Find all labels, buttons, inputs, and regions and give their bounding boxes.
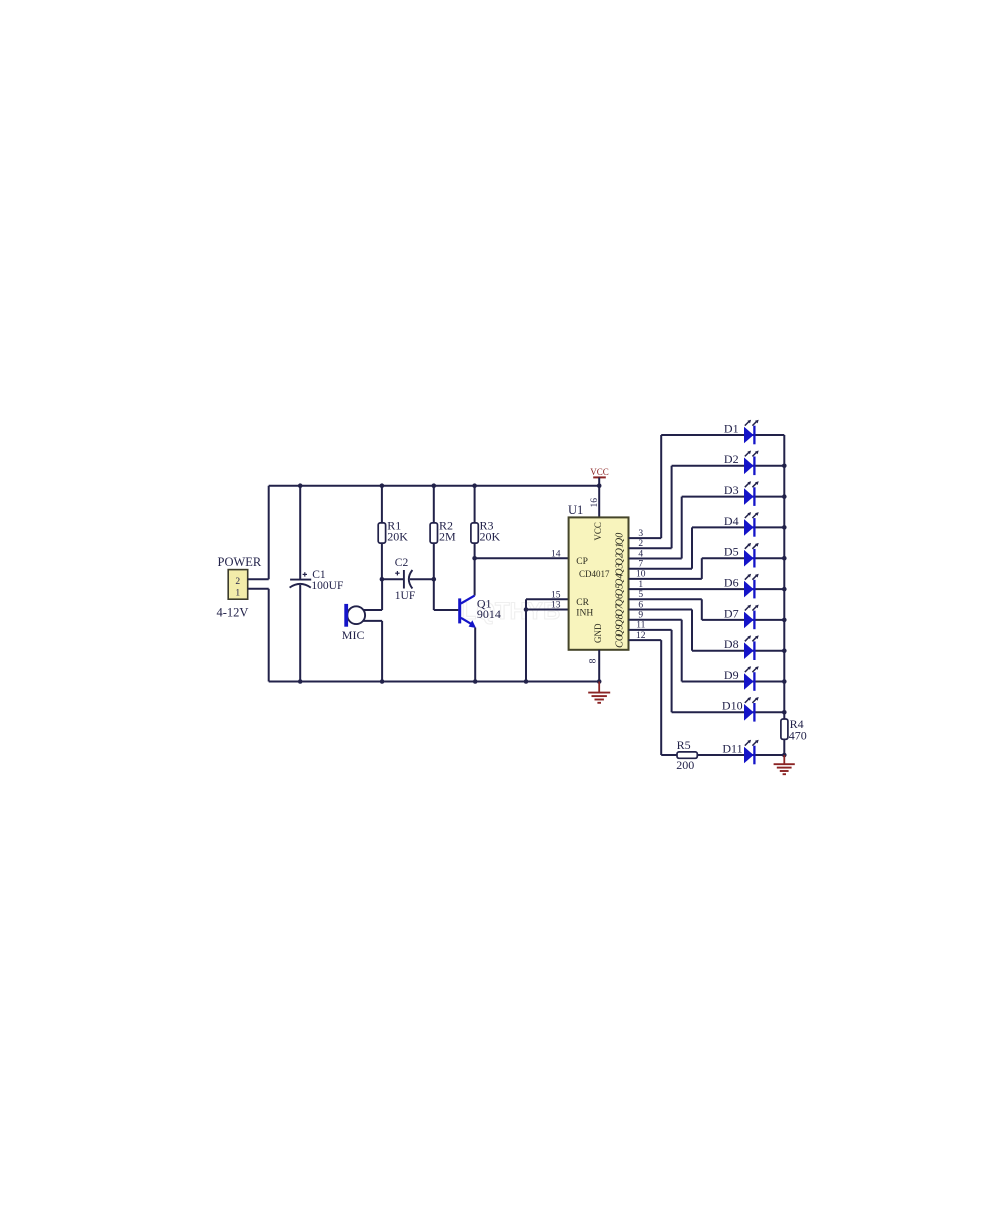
node R3-CP-collector junction	[472, 556, 477, 561]
ic U1 label INH	[576, 608, 593, 618]
connector J1 POWER label	[218, 555, 262, 569]
wire top positive rail	[269, 485, 600, 487]
wire D7 row	[702, 619, 785, 621]
svg-text:R5: R5	[677, 738, 691, 752]
resistor R5	[677, 752, 697, 758]
svg-text:16: 16	[590, 498, 600, 508]
svg-text:C1: C1	[312, 569, 326, 581]
wire D8 row	[692, 650, 784, 652]
node C1 top junction	[298, 483, 303, 488]
led D3	[744, 481, 759, 506]
label D8	[724, 637, 739, 651]
node C2-R2 junction	[432, 577, 437, 582]
led D11	[744, 740, 759, 765]
wire CR stub	[526, 598, 569, 600]
connector J1 POWER box	[228, 570, 248, 600]
svg-text:D8: D8	[724, 637, 739, 651]
svg-text:D1: D1	[724, 421, 739, 435]
pin number 1	[638, 580, 643, 590]
label D2	[724, 452, 739, 466]
wire D1 row	[661, 434, 784, 436]
pin number 2	[638, 539, 643, 549]
led D8	[744, 635, 759, 660]
ic U1 label Q7	[614, 603, 625, 616]
node VCC junction	[597, 483, 602, 488]
label 100UF	[311, 580, 343, 592]
label MIC	[342, 628, 365, 642]
node emitter ground junction	[473, 679, 478, 684]
transistor Q1	[458, 596, 476, 628]
ic U1 label Q8	[614, 614, 625, 626]
svg-text:D3: D3	[724, 483, 739, 497]
wire D5 riser	[701, 558, 703, 579]
svg-text:CR: CR	[576, 598, 589, 608]
svg-text:12: 12	[636, 631, 646, 641]
wire pin 16 lead	[598, 486, 600, 518]
svg-text:100UF: 100UF	[311, 580, 343, 592]
ic U1 label Q2	[614, 553, 625, 565]
led D1	[744, 420, 759, 445]
pin number 5	[638, 590, 643, 600]
power VCC symbol	[590, 467, 609, 486]
svg-text:D7: D7	[724, 606, 739, 620]
svg-text:CO: CO	[614, 634, 625, 648]
wire R1 bottom lead	[381, 543, 383, 579]
wire D3 row	[682, 496, 785, 498]
pin number 11	[636, 621, 645, 631]
svg-text:470: 470	[789, 728, 807, 742]
node rail junction	[782, 710, 787, 715]
wire POWER pin 1 stub	[248, 588, 269, 590]
pin number 6	[638, 600, 643, 610]
led D5	[744, 543, 759, 568]
wire C2 left lead	[382, 578, 404, 580]
wire POWER pin 2 stub	[248, 578, 269, 580]
wire D6 row	[629, 588, 785, 590]
pin number 4	[638, 549, 643, 559]
svg-text:10: 10	[636, 570, 646, 580]
wire D5 row	[702, 557, 785, 559]
wire collector vertical	[474, 558, 476, 595]
ic U1 label GND	[593, 623, 603, 643]
wire pin 9 stub	[629, 619, 682, 621]
ic U1 label CD4017	[579, 569, 610, 579]
ic U1 label Q5	[614, 584, 625, 596]
ic U1 label CR	[576, 598, 589, 608]
label D3	[724, 483, 739, 497]
resistor R2	[430, 523, 437, 543]
svg-text:GND: GND	[593, 623, 603, 643]
microphone MIC	[344, 604, 365, 627]
capacitor C1	[290, 572, 312, 587]
pin number 16	[590, 498, 600, 508]
svg-text:13: 13	[551, 601, 561, 611]
svg-text:4: 4	[638, 549, 643, 559]
wire D2 row	[672, 465, 785, 467]
pin number 3	[638, 529, 643, 539]
node rail junction	[782, 587, 787, 592]
svg-text:20K: 20K	[480, 529, 501, 543]
led D2	[744, 451, 759, 476]
node rail junction	[782, 648, 787, 653]
label R1	[387, 519, 401, 533]
label 470	[789, 728, 807, 742]
wire pin 5 stub	[629, 598, 702, 600]
svg-text:15: 15	[551, 590, 561, 600]
svg-text:MIC: MIC	[342, 628, 365, 642]
label R4	[790, 717, 804, 731]
svg-text:VCC: VCC	[590, 467, 609, 477]
svg-text:D9: D9	[724, 668, 739, 682]
svg-text:5: 5	[638, 590, 643, 600]
ic U1 label Q4	[614, 574, 625, 586]
svg-text:D10: D10	[722, 699, 743, 713]
label 20K R1	[387, 529, 408, 543]
wire bottom ground rail	[269, 681, 600, 683]
ground IC gnd symbol	[588, 682, 610, 703]
ground right gnd symbol	[774, 755, 795, 774]
wire INH stub	[526, 609, 569, 611]
wire D9 riser	[681, 620, 683, 682]
wire pin 8 lead	[598, 650, 600, 682]
pin number 7	[638, 560, 643, 570]
wire pin 12 stub	[629, 639, 662, 641]
node R1-C2-MIC junction	[380, 577, 385, 582]
label D6	[724, 576, 739, 590]
wire D8 riser	[691, 610, 693, 651]
ic U1 label Q6	[614, 594, 625, 606]
label 2M	[439, 529, 456, 543]
pin number 12	[636, 631, 646, 641]
capacitor C2	[395, 570, 412, 589]
label 1UF	[395, 590, 415, 602]
node IC ground junction	[597, 679, 602, 684]
svg-text:200: 200	[676, 758, 694, 772]
svg-text:11: 11	[636, 621, 645, 631]
wire MIC lower vertical	[381, 621, 383, 682]
led D10	[744, 697, 759, 722]
ic U1 label Q0	[614, 533, 625, 545]
svg-text:1: 1	[235, 588, 240, 598]
node D11 rail junction	[782, 753, 787, 758]
label D4	[724, 514, 739, 528]
svg-text:3: 3	[638, 529, 643, 539]
wire D2 riser	[671, 466, 673, 549]
label U1	[568, 503, 583, 517]
watermark	[462, 598, 561, 625]
svg-text:9: 9	[638, 611, 643, 621]
pin number 13	[551, 601, 561, 611]
resistor R4	[781, 719, 788, 739]
svg-text:VCC: VCC	[593, 522, 603, 541]
wire R3 bottom lead	[474, 543, 476, 558]
wire emitter vertical	[474, 628, 476, 682]
label D11	[722, 741, 742, 755]
pin number 8	[589, 658, 599, 663]
wire left down riser from POWER pin 1	[268, 589, 270, 682]
svg-text:D6: D6	[724, 576, 739, 590]
svg-text:INH: INH	[576, 608, 593, 618]
svg-text:POWER: POWER	[218, 555, 262, 569]
node rail junction	[782, 618, 787, 623]
wire base wire	[434, 609, 459, 611]
wire D10 riser	[671, 630, 673, 712]
label 9014	[477, 607, 501, 621]
wire MIC upper vertical	[381, 579, 383, 610]
svg-text:2: 2	[235, 577, 240, 587]
ic U1 label VCC	[593, 522, 603, 541]
svg-text:20K: 20K	[387, 529, 408, 543]
label 20K R3	[480, 529, 501, 543]
led D9	[744, 666, 759, 691]
label 200	[676, 758, 694, 772]
svg-text:4-12V: 4-12V	[217, 606, 249, 620]
wire CR-INH vertical to ground	[525, 599, 527, 681]
wire D10 row	[672, 711, 785, 713]
ic U1 CD4017 body	[569, 517, 629, 649]
svg-text:7: 7	[638, 560, 643, 570]
ic U1 label Q9	[614, 625, 625, 637]
wire D4 row	[692, 526, 784, 528]
node CR-INH junction	[524, 607, 529, 612]
svg-text:6: 6	[638, 600, 643, 610]
svg-text:C2: C2	[395, 557, 409, 569]
led D7	[744, 605, 759, 630]
wire R1 top lead	[381, 486, 383, 523]
svg-text:CP: CP	[576, 557, 588, 567]
svg-text:U1: U1	[568, 503, 583, 517]
pin number 9	[638, 611, 643, 621]
wire pin 3 stub	[629, 537, 662, 539]
wire pin 2 stub	[629, 547, 672, 549]
wire D9 row	[682, 681, 785, 683]
wire C2 right lead	[410, 578, 434, 580]
svg-text:1UF: 1UF	[395, 590, 415, 602]
wire D11 row	[661, 754, 784, 756]
node C1 bottom junction	[298, 679, 303, 684]
svg-text:8: 8	[589, 658, 599, 663]
svg-text:9014: 9014	[477, 607, 501, 621]
label D5	[724, 545, 739, 559]
wire pin 10 stub	[629, 578, 702, 580]
wire C1 top lead	[299, 486, 301, 579]
wire R3 top lead	[474, 486, 476, 523]
ic U1 label Q3	[614, 563, 625, 575]
ic U1 label CO	[614, 634, 625, 648]
node rail junction	[782, 679, 787, 684]
label D10	[722, 699, 743, 713]
wire pin 7 stub	[629, 568, 693, 570]
label R5	[677, 738, 691, 752]
wire D3 riser	[681, 497, 683, 559]
wire D4 riser	[691, 527, 693, 568]
label C2	[395, 557, 409, 569]
wire R2 bottom lead	[433, 543, 435, 610]
wire pin 6 stub	[629, 609, 693, 611]
node R1 top junction	[380, 483, 385, 488]
pin number 10	[636, 570, 646, 580]
node R2 top junction	[432, 483, 437, 488]
led D4	[744, 512, 759, 537]
wire D11 riser	[660, 640, 662, 755]
resistor R1	[378, 523, 385, 543]
led D6	[744, 574, 759, 599]
node rail junction	[782, 464, 787, 469]
label Q1	[477, 597, 492, 611]
wire MIC bottom lead	[362, 620, 382, 622]
node MIC ground junction	[380, 679, 385, 684]
wire pin 4 stub	[629, 558, 682, 560]
ic U1 label Q1	[614, 543, 625, 555]
svg-text:2: 2	[638, 539, 643, 549]
wire MIC top lead	[362, 609, 382, 611]
svg-text:CD4017: CD4017	[579, 569, 610, 579]
ic U1 label CP	[576, 557, 588, 567]
label D1	[724, 421, 739, 435]
wire D7 riser	[701, 599, 703, 620]
wire pin 11 stub	[629, 629, 672, 631]
wire left riser from POWER pin 2	[268, 486, 270, 580]
label 4-12V	[217, 606, 249, 620]
label D9	[724, 668, 739, 682]
wire right cathode rail	[783, 435, 785, 755]
pin number 14	[551, 550, 561, 560]
svg-text:14: 14	[551, 550, 561, 560]
wire CP net to pin 14	[475, 557, 569, 559]
label R3	[480, 519, 494, 533]
svg-text:D4: D4	[724, 514, 739, 528]
svg-text:D2: D2	[724, 452, 739, 466]
label D7	[724, 606, 739, 620]
node rail junction	[782, 556, 787, 561]
wire D1 riser	[660, 435, 662, 538]
label C1	[312, 569, 326, 581]
svg-text:2M: 2M	[439, 529, 456, 543]
wire R2 top lead	[433, 486, 435, 523]
svg-text:D11: D11	[722, 741, 742, 755]
node CR-INH ground junction	[524, 679, 529, 684]
svg-text:D5: D5	[724, 545, 739, 559]
node R3 top junction	[472, 483, 477, 488]
label R2	[439, 519, 453, 533]
wire C1 bottom lead	[299, 585, 301, 682]
node rail junction	[782, 525, 787, 530]
pin number 15	[551, 590, 561, 600]
node rail junction	[782, 494, 787, 499]
resistor R3	[471, 523, 478, 543]
